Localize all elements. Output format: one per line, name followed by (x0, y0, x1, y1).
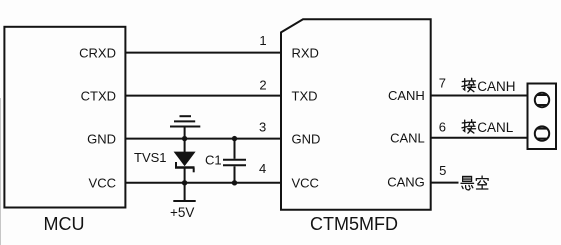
connector J1 (screw terminal block) (528, 84, 557, 150)
svg-text:VCC: VCC (89, 176, 116, 191)
svg-text:MCU: MCU (44, 214, 85, 234)
svg-text:6: 6 (439, 120, 446, 135)
svg-text:CANL: CANL (477, 120, 514, 135)
svg-text:+5V: +5V (170, 205, 194, 220)
wire GND net (125, 138, 282, 140)
node junction C1-VCC (232, 180, 237, 185)
svg-text:VCC: VCC (292, 176, 319, 191)
label 接CANL (462, 120, 514, 136)
wire CANG stub (floating) (431, 182, 459, 184)
svg-text:CANL: CANL (390, 131, 425, 146)
label 悬空 (floating) (461, 176, 488, 190)
wire CANH to connector (431, 95, 527, 97)
label 接CANH (462, 78, 516, 94)
svg-text:RXD: RXD (292, 45, 319, 60)
wire VCC net (125, 182, 282, 184)
IC CTM5MFD box (chamfered top-left corner) (281, 19, 431, 209)
svg-text:4: 4 (259, 161, 266, 176)
capacitor C1 (223, 139, 246, 183)
ground symbol (earth, above GND net) (170, 116, 200, 138)
node junction TVS-GND (182, 136, 187, 141)
wire CRXD to RXD (125, 52, 282, 54)
svg-text:CTXD: CTXD (81, 88, 116, 103)
screw terminal 2 (535, 126, 549, 140)
power terminal +5V (173, 183, 195, 201)
svg-text:2: 2 (259, 77, 266, 92)
TVS diode TVS1 (174, 139, 196, 183)
svg-text:5: 5 (439, 163, 446, 178)
wire CTXD to TXD (125, 95, 282, 97)
IC MCU box (4, 27, 125, 208)
scan artifact left edge (0, 98, 2, 245)
screw terminal 1 (535, 93, 549, 107)
svg-text:TVS1: TVS1 (134, 150, 167, 165)
svg-text:CANG: CANG (387, 174, 425, 189)
svg-text:CTM5MFD: CTM5MFD (310, 214, 398, 234)
svg-text:CANH: CANH (388, 88, 425, 103)
svg-text:7: 7 (439, 76, 446, 91)
svg-text:GND: GND (87, 131, 116, 146)
node junction TVS-VCC (182, 180, 187, 185)
svg-text:TXD: TXD (292, 88, 318, 103)
svg-text:C1: C1 (205, 152, 222, 167)
node junction C1-GND (232, 136, 237, 141)
svg-text:CRXD: CRXD (79, 45, 116, 60)
wire CANL to connector (431, 137, 527, 139)
svg-text:3: 3 (259, 120, 266, 135)
svg-text:CANH: CANH (477, 79, 515, 94)
svg-text:GND: GND (292, 131, 321, 146)
svg-text:1: 1 (259, 33, 266, 48)
